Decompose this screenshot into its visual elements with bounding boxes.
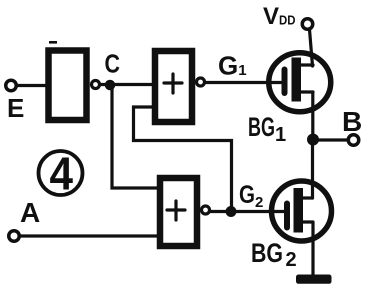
DD2 plus symbol bbox=[164, 74, 182, 93]
ground bbox=[296, 275, 332, 284]
terminal A bbox=[9, 231, 20, 242]
wire node C down to gate DD3 input bbox=[112, 86, 157, 188]
feedback wire node G2 to DD2 input bbox=[134, 107, 232, 209]
svg-text:1: 1 bbox=[275, 124, 286, 146]
svg-text:C: C bbox=[105, 49, 121, 79]
gate DD3 bbox=[160, 178, 197, 246]
wire BG1 source to node B bbox=[311, 92, 314, 140]
inverter DD1 bbox=[49, 51, 87, 121]
DD3 plus symbol bbox=[167, 201, 185, 220]
wire node B to BG2 drain bbox=[311, 140, 314, 198]
wire BG2 source to ground bbox=[311, 222, 314, 276]
svg-text:2: 2 bbox=[286, 249, 297, 271]
node C bbox=[105, 80, 116, 91]
node B bbox=[307, 134, 319, 146]
svg-text:A: A bbox=[20, 197, 40, 228]
svg-text:4: 4 bbox=[50, 148, 74, 200]
svg-text:BG: BG bbox=[251, 238, 283, 268]
transistor BG2 bbox=[272, 181, 332, 241]
terminal E bbox=[6, 80, 17, 91]
terminal B bbox=[348, 135, 359, 146]
wire VDD to BG1 drain bbox=[310, 30, 313, 67]
wire E to inverter DD1 bbox=[17, 84, 48, 87]
scan speck above DD1 bbox=[49, 41, 57, 44]
figure number 4 bbox=[39, 148, 83, 200]
terminal VDD bbox=[302, 19, 313, 30]
wire G1: DD2 output to BG1 gate bbox=[205, 81, 283, 84]
DD3 output bubble bbox=[202, 206, 210, 214]
svg-text:G2: G2 bbox=[239, 181, 263, 211]
DD1 output bubble bbox=[92, 81, 100, 89]
wire node C to gate DD2 input bbox=[100, 83, 155, 86]
svg-text:BG: BG bbox=[248, 112, 275, 142]
wire node B to terminal B bbox=[313, 138, 348, 141]
wire A to DD3 input bbox=[20, 234, 160, 237]
svg-text:B: B bbox=[342, 106, 362, 137]
node G2 bbox=[226, 206, 237, 217]
transistor BG1 bbox=[269, 53, 331, 112]
DD2 output bubble bbox=[197, 78, 205, 86]
svg-text:VDD: VDD bbox=[263, 3, 296, 30]
wire G2: DD3 output to BG2 gate bbox=[210, 210, 285, 213]
svg-text:G1: G1 bbox=[218, 51, 247, 81]
gate DD2 bbox=[155, 51, 192, 122]
svg-text:E: E bbox=[7, 93, 24, 123]
